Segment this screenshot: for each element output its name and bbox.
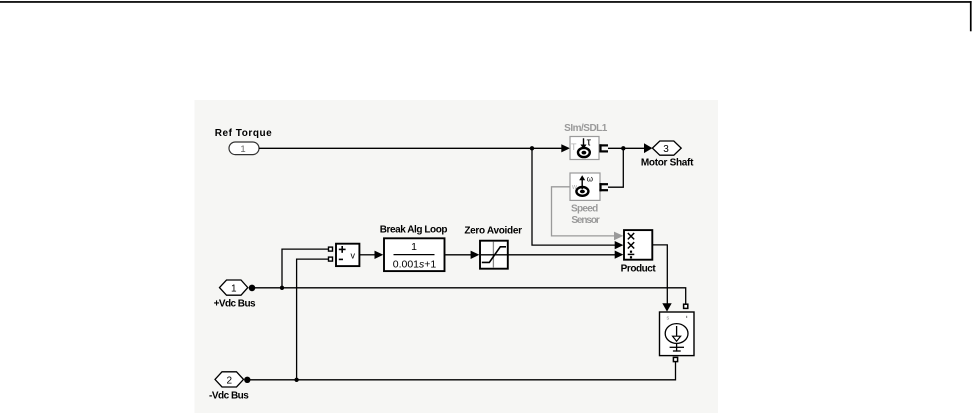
torque sensor block Sim/SDL1 — [564, 123, 608, 159]
arrowhead into Product input 2 — [615, 241, 624, 249]
svg-text:+Vdc Bus: +Vdc Bus — [214, 299, 256, 310]
voltage measurement + port square — [329, 247, 333, 251]
arrowhead into Zero Avoider — [471, 251, 480, 259]
svg-text:-Vdc Bus: -Vdc Bus — [209, 391, 249, 402]
Sim/SDL1 output physical port bracket — [599, 144, 608, 152]
diagram background — [195, 100, 719, 413]
svg-text:3: 3 — [663, 144, 669, 155]
arrowhead into Motor Shaft port — [644, 143, 652, 153]
wire branch Ref Torque to Product input 2 — [532, 148, 615, 245]
svg-text:τ: τ — [587, 136, 592, 148]
wire Product output down to current source — [653, 245, 667, 304]
svg-text:0.001s+1: 0.001s+1 — [393, 258, 437, 270]
voltage measurement block (+/- v) — [336, 244, 359, 266]
current source + terminal square — [684, 304, 688, 308]
gray arrowhead into Product input 1 — [614, 232, 623, 241]
wire -Vdc Bus to current source - terminal — [247, 362, 675, 380]
page right rule — [970, 1, 972, 31]
saturation block Zero Avoider — [480, 241, 508, 269]
svg-text:s: s — [667, 316, 670, 322]
arrowhead into Product input 3 — [615, 251, 624, 259]
svg-text:T: T — [571, 142, 577, 152]
svg-text:1: 1 — [240, 144, 245, 155]
svg-text:2: 2 — [227, 375, 233, 386]
svg-text:Break Alg Loop: Break Alg Loop — [380, 225, 448, 236]
wire Sim/SDL1 to Motor Shaft — [608, 147, 645, 149]
connection dot at inport 2 — [244, 377, 250, 383]
svg-text:Sensor: Sensor — [571, 215, 600, 226]
svg-text:Motor Shaft: Motor Shaft — [641, 158, 694, 169]
wire junction down to Speed Sensor output — [608, 148, 623, 187]
wire Ref Torque to Sim/SDL1 — [259, 147, 562, 149]
arrowhead into Sim/SDL1 — [561, 144, 570, 152]
product block — [624, 230, 652, 260]
outport 3 Motor Shaft (hexagon) — [652, 141, 681, 155]
svg-text:v: v — [351, 250, 356, 260]
junction node on Ref Torque wire — [530, 146, 534, 150]
gray wire speed sensor to Product input 1 — [552, 187, 615, 236]
wire Break Alg Loop to Zero Avoider — [445, 254, 471, 256]
svg-text:ω: ω — [587, 174, 593, 183]
junction node on -Vdc wire — [294, 378, 298, 382]
svg-text:SIm/SDL1: SIm/SDL1 — [564, 123, 608, 134]
junction node before Motor Shaft — [621, 146, 625, 150]
inport 1 Ref Torque (oval) — [229, 142, 259, 155]
controlled current source block — [660, 312, 695, 356]
svg-text:Speed: Speed — [571, 204, 598, 215]
speed sensor output physical port bracket — [599, 183, 608, 191]
current source - terminal square — [673, 357, 677, 361]
voltage measurement - port square — [329, 257, 333, 261]
page top rule — [0, 1, 972, 3]
speed sensor block — [570, 173, 600, 200]
svg-text:Zero Avoider: Zero Avoider — [464, 226, 522, 237]
arrowhead into current source signal input — [662, 303, 671, 311]
wire from +Vdc junction up to + port — [282, 249, 328, 288]
svg-text:1: 1 — [411, 241, 417, 253]
wire +Vdc Bus to current source + terminal — [252, 288, 686, 304]
wire from -Vdc junction up to - port — [297, 259, 328, 380]
transfer function block Break Alg Loop — [384, 238, 445, 271]
arrowhead into Break Alg Loop — [375, 251, 384, 259]
wire Zero Avoider to Product input 3 — [508, 254, 615, 256]
svg-text:Product: Product — [621, 263, 657, 274]
svg-text:1: 1 — [231, 284, 237, 295]
connection dot at inport 1 — [249, 285, 256, 292]
inport 1 +Vdc Bus (hexagon) — [220, 280, 248, 295]
label Speed Sensor — [571, 204, 600, 227]
inport 2 -Vdc Bus (hexagon) — [215, 372, 244, 387]
wire voltage measurement to Break Alg Loop — [360, 254, 375, 256]
svg-text:Ref Torque: Ref Torque — [215, 128, 273, 139]
junction node on +Vdc wire — [280, 286, 284, 290]
